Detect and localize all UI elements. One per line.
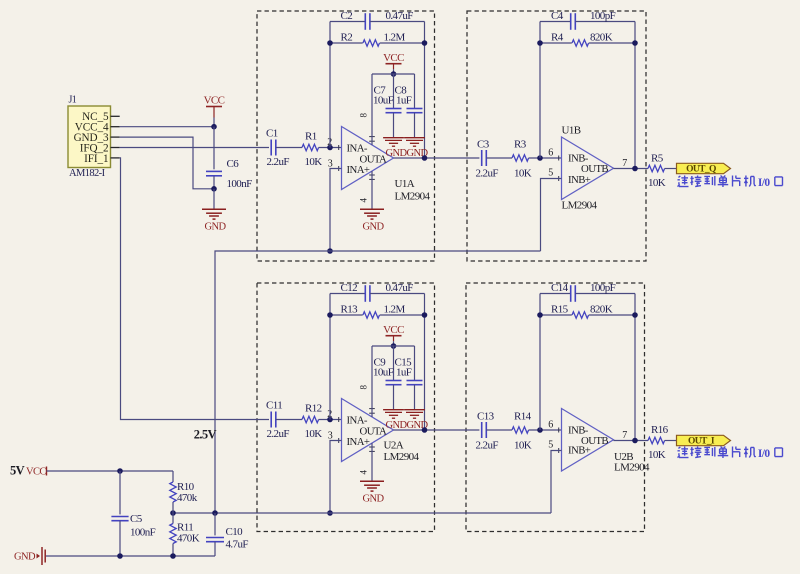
pin number 6 (548, 147, 553, 158)
wire: pin 3 to 2.5V rail (330, 169, 342, 252)
resistor R13 1.2M (330, 304, 425, 319)
node: pin6 junction (537, 155, 543, 161)
node: stage2 feedback-left junction (537, 312, 543, 318)
svg-text:C10: C10 (226, 526, 244, 538)
pin number 6 (548, 419, 553, 430)
wire: VCC_4 to VCC rail (120, 126, 214, 128)
svg-text:100nF: 100nF (130, 527, 156, 539)
connector J1 AM182-I (68, 95, 111, 180)
wire: pin 5 to rail (551, 451, 562, 514)
op-amp U2B LM2904 (559, 409, 650, 474)
node: R11 bottom junction (170, 553, 176, 559)
node: 2.5V/C10 junction (212, 510, 218, 516)
dashed box: stage 2 Q-channel amplifier (467, 11, 646, 261)
svg-text:7: 7 (622, 430, 627, 441)
svg-text:R15: R15 (551, 304, 569, 316)
svg-text:R5: R5 (651, 153, 664, 165)
pin number 2 (327, 137, 332, 148)
svg-text:INA+: INA+ (347, 436, 370, 448)
ground symbol GND (op-amp U1A) (360, 171, 384, 233)
svg-text:2.5V: 2.5V (194, 428, 217, 442)
capacitor C12 0.47uF (330, 282, 425, 302)
svg-text:LM2904: LM2904 (614, 462, 650, 474)
svg-text:IFI_1: IFI_1 (84, 153, 108, 165)
power symbol VCC (top, at J1) (204, 95, 225, 127)
power symbol VCC (U1A supply) (383, 52, 404, 74)
svg-text:C11: C11 (266, 400, 282, 412)
node: VCC/C6 junction (211, 124, 217, 130)
svg-text:J1: J1 (69, 95, 77, 106)
wire: feedback right vertical (x=424.5) (424, 22, 426, 159)
svg-text:470K: 470K (177, 533, 200, 545)
wire: IFI_1 down and to C11 (120, 158, 269, 420)
svg-text:INB+: INB+ (568, 174, 591, 186)
op-amp U1B LM2904 (559, 125, 614, 212)
svg-text:C2: C2 (341, 10, 353, 22)
svg-text:100pF: 100pF (590, 10, 616, 22)
capacitor C8 1uF (395, 74, 423, 138)
capacitor C1 2.2uF (266, 128, 289, 169)
svg-text:1uF: 1uF (396, 367, 412, 379)
resistor R14 10K (512, 410, 532, 451)
wire: 2.5V rail top channel (to U1B pin5) (215, 251, 541, 513)
node: inverting input junction (327, 145, 333, 151)
dashed box: stage 1 Q-channel amplifier (257, 11, 435, 261)
svg-text:R1: R1 (305, 131, 317, 143)
svg-text:10K: 10K (648, 449, 666, 461)
pin GND_3 stub (111, 136, 120, 138)
svg-text:GND: GND (14, 552, 36, 563)
svg-text:INB+: INB+ (568, 445, 591, 457)
svg-text:OUT_Q: OUT_Q (686, 165, 716, 175)
power symbol VCC (U2A supply) (383, 324, 404, 346)
capacitor C14 100pF (540, 282, 635, 302)
svg-text:VCC: VCC (383, 324, 404, 336)
wire: op-amp pin 8 supply (371, 346, 373, 417)
svg-text:R2: R2 (341, 32, 353, 44)
pin NC_5 stub (111, 115, 120, 117)
wire: R12 to op-amp pin 2 (319, 419, 342, 421)
wire: GND_3 to C6 ground node (120, 137, 214, 189)
wire: IFQ_2 to C1 (120, 147, 269, 149)
svg-text:3: 3 (328, 431, 333, 442)
svg-text:LM2904: LM2904 (384, 451, 420, 463)
capacitor C13 2.2uF (476, 410, 499, 451)
pin number 3 (328, 159, 333, 170)
svg-text:GND: GND (386, 420, 408, 431)
node: OUTA junction (422, 155, 428, 161)
svg-text:R12: R12 (305, 403, 322, 415)
ground symbol (below C7) (383, 138, 407, 159)
svg-text:2.2uF: 2.2uF (267, 428, 290, 440)
svg-text:GND: GND (363, 222, 385, 233)
node: OUTB junction (632, 438, 638, 444)
svg-text:U1B: U1B (562, 125, 581, 137)
node: feedback-right/R junction (422, 312, 428, 318)
svg-text:LM2904: LM2904 (562, 200, 598, 212)
svg-text:1.2M: 1.2M (384, 32, 406, 44)
svg-text:U2A: U2A (384, 440, 404, 452)
node: divider midpoint junction (170, 510, 176, 516)
ground symbol GND (op-amp U2A) (360, 443, 384, 505)
svg-text:100nF: 100nF (227, 178, 253, 190)
dashed box: stage 1 I-channel amplifier (257, 283, 435, 532)
port OUT_Q (677, 163, 731, 174)
wire: 2.5V rail bottom (divider to U2B pin5) (173, 512, 551, 514)
capacitor C15 1uF (395, 346, 423, 410)
svg-text:7: 7 (622, 158, 627, 169)
resistor R3 10K (512, 138, 532, 179)
pin IFQ_2 stub (111, 147, 120, 149)
resistor R2 1.2M (330, 32, 425, 47)
power port 5V VCC (10, 464, 47, 478)
svg-text:VCC: VCC (26, 467, 46, 478)
node: pin6 junction (537, 427, 543, 433)
op-amp U2A LM2904 (339, 384, 420, 474)
resistor R4 820K (540, 32, 635, 47)
node: feedback-left/R junction (327, 40, 333, 46)
wire: C11 to R12 (276, 419, 302, 421)
node: OUTB junction (632, 166, 638, 172)
svg-text:10uF: 10uF (373, 95, 394, 107)
svg-text:4.7uF: 4.7uF (226, 539, 249, 551)
svg-text:C6: C6 (227, 158, 240, 170)
node: pin3/rail junction (327, 510, 333, 516)
pin IFI_1 stub (111, 157, 120, 159)
node: OUTA junction (422, 427, 428, 433)
wire: ground rail bottom (46, 555, 215, 557)
svg-text:R3: R3 (514, 138, 527, 150)
power port GND (bottom left) (14, 547, 45, 565)
resistor R5 10K (648, 153, 666, 190)
wire: VCC rail (372, 345, 415, 347)
svg-text:C12: C12 (341, 282, 358, 294)
wire: feedback left vertical (x=330) (329, 294, 331, 420)
svg-text:C3: C3 (477, 138, 490, 150)
resistor R10 470k (170, 471, 198, 513)
capacitor C3 2.2uF (476, 138, 499, 179)
svg-text:820K: 820K (590, 32, 613, 44)
wire: C13 to R14 (486, 429, 512, 431)
svg-text:820K: 820K (590, 304, 613, 316)
pin number 7 (622, 158, 627, 169)
node: C5 bottom junction (117, 553, 123, 559)
svg-text:INA+: INA+ (347, 164, 370, 176)
wire: R5 to port OUT_Q (665, 168, 677, 170)
svg-text:10K: 10K (514, 168, 532, 180)
wire: VCC rail (372, 73, 415, 75)
svg-text:AM182-I: AM182-I (69, 168, 106, 179)
wire: OUTA to C3 (394, 157, 480, 159)
svg-text:10K: 10K (305, 156, 323, 168)
svg-text:R4: R4 (551, 32, 564, 44)
svg-text:1.2M: 1.2M (384, 304, 406, 316)
wire: R1 to op-amp pin 2 (319, 147, 342, 149)
capacitor C5 100nF (111, 471, 155, 556)
svg-text:U1A: U1A (395, 178, 415, 190)
pin number 5 (548, 440, 553, 451)
node label 2.5V (194, 428, 217, 442)
resistor R1 10K (302, 131, 322, 169)
wire: feedback right vertical (x=424.5) (424, 294, 426, 431)
pin number 2 (327, 409, 332, 420)
pin number 5 (548, 168, 553, 179)
svg-text:C1: C1 (266, 128, 278, 140)
node: inverting input junction (327, 417, 333, 423)
wire: OUTB to R16 (614, 440, 649, 442)
svg-text:C13: C13 (477, 410, 495, 422)
svg-text:C4: C4 (551, 10, 564, 22)
capacitor C11 2.2uF (266, 400, 289, 441)
svg-text:I/0: I/0 (758, 448, 770, 460)
svg-text:2.2uF: 2.2uF (476, 440, 499, 452)
svg-text:I/0: I/0 (758, 177, 770, 189)
node: stage2 feedback-right junction (632, 40, 638, 46)
capacitor C2 0.47uF (330, 10, 425, 30)
wire: stage2 feedback left vertical (x=540) (539, 22, 541, 159)
capacitor C7 10uF (373, 74, 402, 138)
capacitor C10 4.7uF (206, 513, 248, 556)
svg-text:C5: C5 (130, 513, 143, 525)
wire: pin 5 to rail (541, 179, 562, 252)
svg-text:10K: 10K (514, 440, 532, 452)
svg-text:R16: R16 (651, 424, 669, 436)
ground symbol (below C15) (404, 410, 428, 431)
wire: op-amp pin 8 supply (371, 74, 373, 145)
node: pin3/rail junction (327, 248, 333, 254)
op-amp U1A LM2904 (339, 112, 431, 202)
annotation: connect to MCU I/O port (OUT_I) (677, 447, 782, 461)
wire: R14 to op-amp pin 6 (529, 429, 562, 431)
dashed box: stage 2 I-channel amplifier (466, 283, 645, 532)
svg-text:VCC: VCC (383, 52, 404, 64)
wire: stage2 feedback right vertical (x=635) (634, 22, 636, 169)
node: stage2 feedback-right junction (632, 312, 638, 318)
pin number 7 (622, 430, 627, 441)
svg-text:0.47uF: 0.47uF (386, 10, 414, 22)
wire: OUTA to C13 (394, 429, 480, 431)
wire: C3 to R3 (486, 157, 512, 159)
svg-text:5V: 5V (10, 464, 25, 478)
svg-text:10uF: 10uF (373, 367, 394, 379)
svg-text:470k: 470k (177, 492, 198, 504)
node: feedback-left/R junction (327, 312, 333, 318)
svg-text:1uF: 1uF (396, 95, 412, 107)
svg-text:3: 3 (328, 159, 333, 170)
svg-text:10K: 10K (648, 177, 666, 189)
wire: pin 3 to 2.5V rail (330, 441, 342, 514)
node: feedback-right/R junction (422, 40, 428, 46)
resistor R11 470K (170, 513, 200, 556)
svg-text:6: 6 (548, 147, 553, 158)
svg-text:6: 6 (548, 419, 553, 430)
svg-text:2.2uF: 2.2uF (267, 156, 290, 168)
node: VCC rail junction (391, 343, 397, 349)
resistor R16 10K (648, 424, 669, 461)
svg-text:10K: 10K (305, 428, 323, 440)
resistor R15 820K (540, 304, 635, 319)
capacitor C9 10uF (373, 346, 402, 410)
svg-text:R14: R14 (514, 410, 532, 422)
ground symbol GND (below C6) (202, 189, 226, 233)
svg-text:LM2904: LM2904 (395, 191, 431, 203)
node: C5 top junction (117, 468, 123, 474)
ground symbol (below C9) (383, 410, 407, 431)
wire: R3 to op-amp pin 6 (529, 157, 562, 159)
wire: C1 to R1 (276, 147, 302, 149)
resistor R12 10K (302, 403, 322, 441)
port OUT_I (677, 435, 731, 446)
svg-text:5: 5 (548, 440, 553, 451)
svg-text:C14: C14 (551, 282, 569, 294)
svg-text:GND: GND (205, 222, 227, 233)
svg-text:GND: GND (386, 148, 408, 159)
node: VCC rail junction (391, 71, 397, 77)
wire: R16 to port OUT_I (665, 440, 677, 442)
annotation: connect to MCU I/O port (OUT_Q) (677, 176, 782, 190)
capacitor C4 100pF (540, 10, 635, 30)
node: stage2 feedback-left junction (537, 40, 543, 46)
svg-text:0.47uF: 0.47uF (386, 282, 414, 294)
capacitor C6 100nF (206, 127, 252, 190)
svg-text:R13: R13 (341, 304, 359, 316)
pin VCC_4 stub (111, 126, 120, 128)
wire: OUTB to R5 (614, 168, 649, 170)
wire: feedback left vertical (x=330) (329, 22, 331, 148)
wire: stage2 feedback left vertical (x=540) (539, 294, 541, 431)
svg-text:5: 5 (548, 168, 553, 179)
svg-text:OUT_I: OUT_I (688, 437, 715, 447)
ground symbol (below C8) (404, 138, 428, 159)
svg-text:2.2uF: 2.2uF (476, 168, 499, 180)
svg-text:VCC: VCC (204, 95, 225, 107)
wire: 5V to R10 (47, 470, 174, 472)
pin number 3 (328, 431, 333, 442)
svg-text:GND: GND (363, 494, 385, 505)
svg-text:100pF: 100pF (590, 282, 616, 294)
wire: stage2 feedback right vertical (x=635) (634, 294, 636, 441)
node: C6/GND junction (211, 186, 217, 192)
